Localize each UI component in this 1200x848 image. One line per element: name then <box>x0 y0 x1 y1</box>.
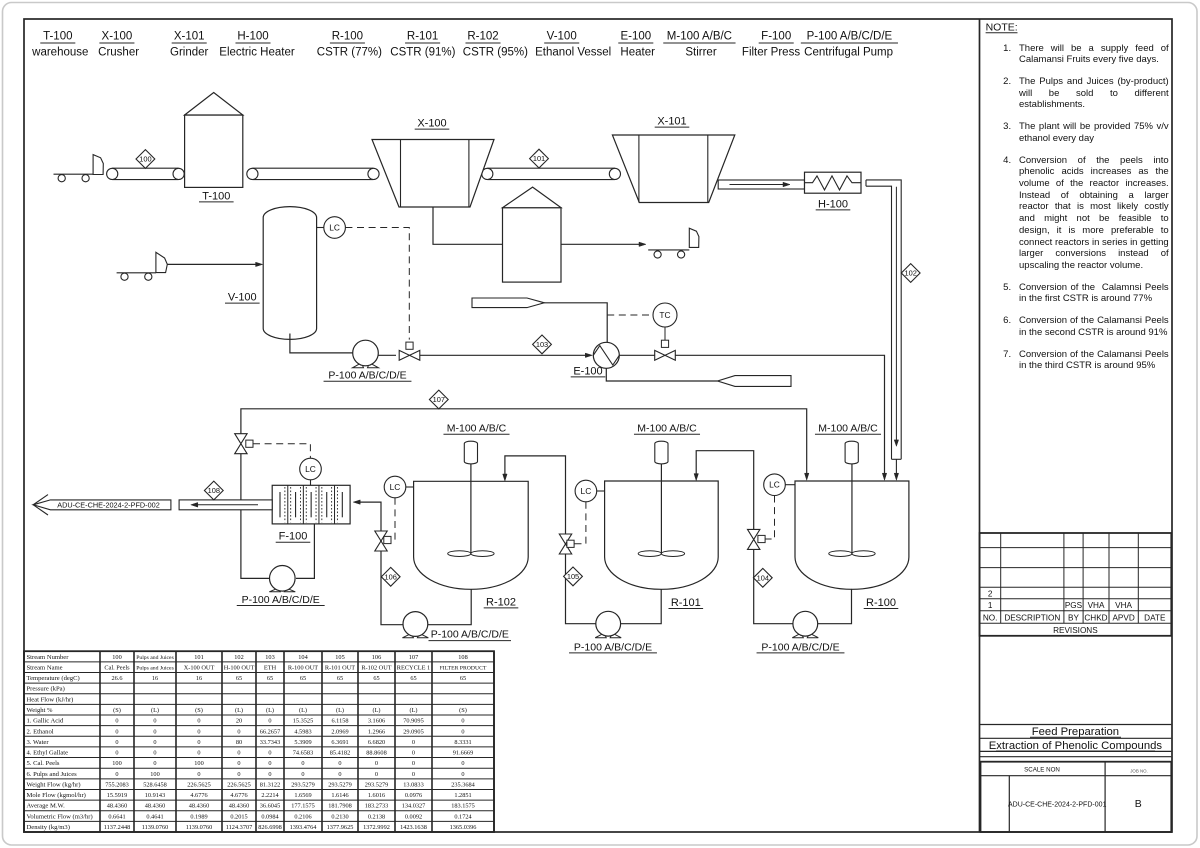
svg-text:103: 103 <box>536 340 548 349</box>
svg-text:Pulps and Juices: Pulps and Juices <box>136 665 174 671</box>
level controller LC V-100 <box>317 227 324 229</box>
svg-text:0.0984: 0.0984 <box>261 813 279 820</box>
svg-text:E-100: E-100 <box>573 365 602 377</box>
svg-text:0: 0 <box>237 760 240 767</box>
scale and number block <box>981 762 1172 832</box>
svg-text:ETH: ETH <box>264 664 277 671</box>
svg-text:107: 107 <box>433 395 445 404</box>
control valve TC (stream to R-100) <box>655 350 676 360</box>
svg-text:48.4360: 48.4360 <box>189 803 209 810</box>
pipe truck to V-100 <box>167 263 257 265</box>
recycle control valve <box>235 434 247 454</box>
stream diamond 105 <box>564 567 583 586</box>
conveyor 2 <box>252 167 373 169</box>
svg-text:VHA: VHA <box>1088 601 1105 610</box>
svg-text:16: 16 <box>152 675 158 682</box>
stream diamond 103 <box>533 335 552 354</box>
heater E-100 <box>593 342 619 368</box>
pipe steam to E-100 <box>544 303 607 342</box>
svg-text:5. Cal. Peels: 5. Cal. Peels <box>27 760 60 767</box>
svg-text:0: 0 <box>153 739 156 746</box>
pipe R-102 pump to F-100 (stream 106) <box>356 502 403 625</box>
svg-text:10.9143: 10.9143 <box>145 792 165 799</box>
svg-text:1365.0396: 1365.0396 <box>450 824 477 831</box>
svg-text:0.2138: 0.2138 <box>368 813 385 820</box>
pipe R-102 to pump <box>428 589 471 624</box>
svg-text:0: 0 <box>461 760 464 767</box>
pump P-100 A/B/C/D/E (ethanol) <box>353 363 364 368</box>
svg-text:0.2130: 0.2130 <box>331 813 348 820</box>
svg-text:1.6569: 1.6569 <box>294 792 311 799</box>
svg-text:0: 0 <box>375 760 378 767</box>
svg-text:1: 1 <box>988 601 993 610</box>
svg-text:H-100 OUT: H-100 OUT <box>224 664 255 671</box>
svg-text:65: 65 <box>410 675 416 682</box>
svg-text:Weight %: Weight % <box>27 707 54 714</box>
svg-text:0: 0 <box>412 750 415 757</box>
svg-text:0.1989: 0.1989 <box>190 813 207 820</box>
stream diamond 102 <box>901 264 920 283</box>
svg-text:APVD: APVD <box>1112 614 1134 623</box>
svg-text:Grinder: Grinder <box>170 47 209 59</box>
signal LC to valve (dashed) <box>345 228 409 340</box>
svg-text:1. Gallic Acid: 1. Gallic Acid <box>27 718 65 725</box>
svg-text:Average M.W.: Average M.W. <box>27 803 66 810</box>
svg-text:1372.9992: 1372.9992 <box>363 824 390 831</box>
svg-text:0: 0 <box>115 728 118 735</box>
svg-text:6.3691: 6.3691 <box>331 739 348 746</box>
svg-text:2: 2 <box>988 589 993 598</box>
pipe pump to recycle valve <box>241 454 269 579</box>
note list <box>998 43 1169 373</box>
stream table <box>24 650 494 652</box>
svg-text:8.3331: 8.3331 <box>454 739 471 746</box>
pump P-100 A/B/C/D/E (filter) <box>269 588 280 592</box>
svg-text:DATE: DATE <box>1144 614 1166 623</box>
reactor R-101 <box>605 481 719 589</box>
svg-text:0: 0 <box>338 760 341 767</box>
svg-text:T-100: T-100 <box>43 31 72 43</box>
svg-text:0.0976: 0.0976 <box>405 792 422 799</box>
pipe R-101 pump to R-102 (stream 105) <box>505 456 596 624</box>
svg-text:F-100: F-100 <box>761 31 791 43</box>
svg-text:Electric Heater: Electric Heater <box>219 47 295 59</box>
svg-text:DESCRIPTION: DESCRIPTION <box>1004 614 1060 623</box>
svg-text:0: 0 <box>268 771 271 778</box>
svg-text:Heat Flow (kJ/hr): Heat Flow (kJ/hr) <box>27 696 74 703</box>
svg-text:Stream Number: Stream Number <box>27 654 70 661</box>
svg-text:3. Water: 3. Water <box>27 739 50 746</box>
svg-text:Ethanol Vessel: Ethanol Vessel <box>535 47 611 59</box>
svg-text:P-100 A/B/C/D/E: P-100 A/B/C/D/E <box>242 594 320 606</box>
pipe pump to E-100 (stream 103) <box>378 354 396 356</box>
svg-text:15.3525: 15.3525 <box>293 718 313 725</box>
svg-text:65: 65 <box>373 675 379 682</box>
svg-text:Pressure (kPa): Pressure (kPa) <box>27 686 65 693</box>
svg-text:SCALE NON: SCALE NON <box>1024 767 1060 774</box>
svg-text:P-100 A/B/C/D/E: P-100 A/B/C/D/E <box>431 628 509 640</box>
svg-text:H-100: H-100 <box>237 31 268 43</box>
svg-text:3.1606: 3.1606 <box>368 718 385 725</box>
svg-text:103: 103 <box>265 654 274 661</box>
conveyor 1 <box>112 167 178 169</box>
condensate outlet pennant <box>718 376 792 387</box>
control valve riser R-102 <box>375 531 387 551</box>
svg-text:6.6820: 6.6820 <box>368 739 385 746</box>
svg-text:1393.4764: 1393.4764 <box>290 824 318 831</box>
svg-text:0: 0 <box>237 750 240 757</box>
pipe R-101 to pump <box>621 589 662 623</box>
svg-text:101: 101 <box>533 154 545 163</box>
svg-text:226.5625: 226.5625 <box>187 781 211 788</box>
svg-text:16: 16 <box>196 675 202 682</box>
svg-text:X-100: X-100 <box>102 31 133 43</box>
svg-text:X-100 OUT: X-100 OUT <box>184 664 215 671</box>
svg-text:Stream Name: Stream Name <box>27 664 63 671</box>
svg-text:65: 65 <box>267 675 273 682</box>
svg-text:JOB NO.: JOB NO. <box>1130 769 1148 774</box>
svg-text:X-101: X-101 <box>657 116 686 128</box>
svg-text:1139.0760: 1139.0760 <box>142 824 169 831</box>
svg-text:4.6776: 4.6776 <box>230 792 247 799</box>
svg-text:0: 0 <box>268 718 271 725</box>
svg-text:Weight Flow (kg/hr): Weight Flow (kg/hr) <box>27 781 81 788</box>
svg-text:81.3122: 81.3122 <box>260 781 280 788</box>
svg-text:P-100 A/B/C/D/E: P-100 A/B/C/D/E <box>328 370 406 382</box>
svg-text:F-100: F-100 <box>279 531 308 543</box>
svg-text:CSTR (95%): CSTR (95%) <box>463 47 528 59</box>
reactor R-100 <box>795 481 909 589</box>
svg-text:88.8608: 88.8608 <box>366 750 386 757</box>
svg-text:CSTR (77%): CSTR (77%) <box>317 47 382 59</box>
filter product duct (stream 108) <box>179 500 272 510</box>
svg-text:H-100: H-100 <box>818 198 848 210</box>
svg-text:70.9095: 70.9095 <box>403 718 423 725</box>
svg-text:M-100 A/B/C: M-100 A/B/C <box>667 31 732 43</box>
svg-text:0: 0 <box>412 771 415 778</box>
svg-text:293.5279: 293.5279 <box>328 781 352 788</box>
svg-text:CSTR (91%): CSTR (91%) <box>390 47 455 59</box>
svg-text:0: 0 <box>412 760 415 767</box>
svg-text:FILTER PRODUCT: FILTER PRODUCT <box>440 665 487 671</box>
svg-text:108: 108 <box>208 486 220 495</box>
svg-text:4.5983: 4.5983 <box>294 728 311 735</box>
stirrer M-100 A/B/C (R-102) <box>464 441 477 464</box>
svg-text:CHKD: CHKD <box>1084 614 1107 623</box>
svg-text:Centrifugal Pump: Centrifugal Pump <box>804 47 893 59</box>
svg-text:104: 104 <box>298 654 308 661</box>
svg-text:226.5625: 226.5625 <box>227 781 251 788</box>
svg-text:13.0833: 13.0833 <box>403 781 423 788</box>
svg-text:183.1575: 183.1575 <box>451 803 475 810</box>
svg-text:528.6458: 528.6458 <box>143 781 167 788</box>
pipe V-100 to pump P-100 <box>290 334 353 353</box>
pump P-100 A/B/C/D/E (R-101) <box>595 633 606 638</box>
svg-text:100: 100 <box>194 760 203 767</box>
svg-text:33.7343: 33.7343 <box>260 739 280 746</box>
svg-text:4.6776: 4.6776 <box>190 792 207 799</box>
temperature controller TC <box>607 314 653 316</box>
svg-text:0: 0 <box>153 728 156 735</box>
svg-text:4. Ethyl Gallate: 4. Ethyl Gallate <box>27 750 69 757</box>
svg-text:ADU-CE-CHE-2024-2-PFD-002: ADU-CE-CHE-2024-2-PFD-002 <box>57 501 160 510</box>
pipe X-100 to pulp silo <box>433 207 503 244</box>
svg-text:LC: LC <box>390 482 401 492</box>
svg-text:0.2106: 0.2106 <box>294 813 311 820</box>
svg-text:48.4360: 48.4360 <box>229 803 249 810</box>
svg-text:RECYCLE 1: RECYCLE 1 <box>397 664 430 671</box>
svg-text:65: 65 <box>460 675 466 682</box>
truck 2 (ethanol delivery) <box>121 273 128 280</box>
control valve riser R-101 <box>559 534 571 554</box>
svg-text:0.6641: 0.6641 <box>108 813 125 820</box>
svg-text:Volumetric Flow (m3/hr): Volumetric Flow (m3/hr) <box>27 813 93 820</box>
svg-text:108: 108 <box>458 654 467 661</box>
svg-text:P-100 A/B/C/D/E: P-100 A/B/C/D/E <box>807 31 893 43</box>
svg-text:M-100 A/B/C: M-100 A/B/C <box>818 423 878 435</box>
pipe R-100 pump to R-101 (stream 104) <box>696 451 793 624</box>
off-page connector ADU-CE-CHE-2024-2-PFD-002 <box>33 500 171 510</box>
svg-text:0: 0 <box>197 718 200 725</box>
svg-text:R-102 OUT: R-102 OUT <box>361 664 391 671</box>
svg-text:LC: LC <box>581 486 592 496</box>
filter press F-100 <box>272 485 350 524</box>
conveyor 3 <box>487 167 615 169</box>
stream diamond 108 <box>204 481 223 500</box>
svg-text:100: 100 <box>139 155 151 164</box>
svg-text:Filter Press: Filter Press <box>742 47 800 59</box>
svg-text:(S): (S) <box>459 707 467 714</box>
svg-text:REVISIONS: REVISIONS <box>1053 626 1098 635</box>
svg-text:X-101: X-101 <box>174 31 205 43</box>
svg-text:0: 0 <box>197 771 200 778</box>
level controller LC F-100 <box>300 458 322 480</box>
truck 3 (pulps and juices) <box>654 251 661 258</box>
svg-text:NOTE:: NOTE: <box>986 22 1018 34</box>
pipe F-100 bottom to pump <box>296 524 314 579</box>
svg-text:Density (kg/m3): Density (kg/m3) <box>27 824 70 831</box>
svg-text:Feed Preparation: Feed Preparation <box>1032 726 1119 738</box>
svg-text:1.6016: 1.6016 <box>368 792 385 799</box>
svg-text:(L): (L) <box>151 707 159 714</box>
svg-text:826.6998: 826.6998 <box>258 824 282 831</box>
stirrer M-100 A/B/C (R-101) <box>655 441 668 464</box>
svg-text:Heater: Heater <box>620 47 655 59</box>
svg-text:M-100 A/B/C: M-100 A/B/C <box>447 423 507 435</box>
svg-text:0: 0 <box>461 728 464 735</box>
svg-text:0: 0 <box>461 771 464 778</box>
svg-text:0: 0 <box>375 771 378 778</box>
svg-text:1.2966: 1.2966 <box>368 728 385 735</box>
svg-text:293.5279: 293.5279 <box>365 781 389 788</box>
grinder X-101 <box>612 135 734 203</box>
svg-text:181.7908: 181.7908 <box>328 803 352 810</box>
svg-text:Extraction of Phenolic Compoun: Extraction of Phenolic Compounds <box>989 740 1163 752</box>
level controller LC R-101 <box>575 480 597 502</box>
svg-text:134.0327: 134.0327 <box>402 803 426 810</box>
svg-text:100: 100 <box>112 760 121 767</box>
svg-text:1137.2448: 1137.2448 <box>104 824 131 831</box>
warehouse silo T-100 <box>185 115 243 187</box>
electric heater H-100 <box>805 172 862 193</box>
svg-text:R-100: R-100 <box>866 597 896 609</box>
stream diamond 107 <box>429 390 448 409</box>
svg-text:VHA: VHA <box>1115 601 1132 610</box>
svg-text:100: 100 <box>150 771 159 778</box>
svg-text:R-102: R-102 <box>486 596 516 608</box>
pipe duct end into R-100 <box>895 459 897 474</box>
stream diamond 106 <box>381 567 400 586</box>
svg-text:177.1575: 177.1575 <box>291 803 315 810</box>
svg-text:20: 20 <box>236 718 242 725</box>
svg-text:R-101: R-101 <box>407 31 438 43</box>
svg-text:0: 0 <box>153 760 156 767</box>
svg-text:(L): (L) <box>235 707 243 714</box>
svg-text:48.4360: 48.4360 <box>107 803 127 810</box>
svg-text:1423.1638: 1423.1638 <box>400 824 427 831</box>
duct H-100 to R-100 (stream 102) <box>866 180 901 459</box>
pump P-100 A/B/C/D/E (R-102) <box>402 633 413 637</box>
pump P-100 A/B/C/D/E (R-100) <box>792 633 803 638</box>
svg-text:PGS: PGS <box>1065 601 1083 610</box>
svg-text:102: 102 <box>234 654 243 661</box>
svg-text:0: 0 <box>153 718 156 725</box>
control valve (ethanol feed) <box>406 342 413 349</box>
svg-text:0: 0 <box>268 760 271 767</box>
svg-text:(L): (L) <box>409 707 417 714</box>
svg-text:6.1158: 6.1158 <box>331 718 348 725</box>
svg-text:V-100: V-100 <box>228 292 257 304</box>
svg-text:0: 0 <box>237 728 240 735</box>
truck 1 (calamansi fruit delivery) <box>58 175 65 182</box>
svg-text:293.5279: 293.5279 <box>291 781 315 788</box>
svg-text:R-100 OUT: R-100 OUT <box>288 664 318 671</box>
svg-text:0: 0 <box>301 760 304 767</box>
svg-text:48.4360: 48.4360 <box>145 803 165 810</box>
svg-text:TC: TC <box>659 310 670 320</box>
svg-text:6. Pulps and Juices: 6. Pulps and Juices <box>27 771 78 778</box>
svg-text:Temperature (degC): Temperature (degC) <box>27 675 80 682</box>
svg-text:(S): (S) <box>195 707 203 714</box>
svg-text:(L): (L) <box>336 707 344 714</box>
svg-text:BY: BY <box>1068 614 1079 623</box>
svg-text:66.2657: 66.2657 <box>260 728 280 735</box>
svg-text:R-100: R-100 <box>332 31 363 43</box>
svg-text:0: 0 <box>115 771 118 778</box>
signal LC to recycle valve (dashed) <box>253 444 310 459</box>
svg-text:R-102: R-102 <box>467 31 498 43</box>
svg-text:LC: LC <box>329 223 340 233</box>
svg-text:0: 0 <box>237 771 240 778</box>
svg-text:74.6583: 74.6583 <box>293 750 313 757</box>
svg-text:0.2015: 0.2015 <box>230 813 247 820</box>
svg-text:0: 0 <box>301 771 304 778</box>
svg-text:65: 65 <box>300 675 306 682</box>
crusher X-100 <box>372 140 494 208</box>
svg-text:M-100 A/B/C: M-100 A/B/C <box>637 423 697 435</box>
svg-text:B: B <box>1135 798 1142 810</box>
ethanol vessel V-100 <box>263 207 316 340</box>
svg-text:26.6: 26.6 <box>111 675 122 682</box>
svg-text:P-100 A/B/C/D/E: P-100 A/B/C/D/E <box>574 641 652 653</box>
svg-text:15.5919: 15.5919 <box>107 792 127 799</box>
svg-text:0.0092: 0.0092 <box>405 813 422 820</box>
svg-text:0: 0 <box>268 750 271 757</box>
signal TC to valve <box>664 327 666 340</box>
svg-text:80: 80 <box>236 739 242 746</box>
svg-text:Mole Flow (kgmol/hr): Mole Flow (kgmol/hr) <box>27 792 86 799</box>
svg-text:1.6146: 1.6146 <box>331 792 348 799</box>
svg-text:0.4641: 0.4641 <box>146 813 163 820</box>
svg-text:101: 101 <box>194 654 203 661</box>
stream diamond 104 <box>753 568 772 587</box>
svg-text:(S): (S) <box>113 707 121 714</box>
svg-text:Cal. Peels: Cal. Peels <box>104 664 130 671</box>
svg-text:(L): (L) <box>266 707 274 714</box>
svg-text:0: 0 <box>115 739 118 746</box>
svg-text:V-100: V-100 <box>547 31 577 43</box>
svg-text:183.2733: 183.2733 <box>365 803 389 810</box>
svg-text:Pulps and Juices: Pulps and Juices <box>136 655 174 661</box>
stream diamond 101 <box>530 149 549 168</box>
control valve riser R-100 <box>748 529 760 549</box>
svg-text:0: 0 <box>461 718 464 725</box>
svg-text:0: 0 <box>197 728 200 735</box>
svg-text:0: 0 <box>153 750 156 757</box>
pipe recycle (stream 107) <box>241 409 807 475</box>
level controller LC R-102 <box>384 476 406 498</box>
svg-text:1124.3707: 1124.3707 <box>226 824 253 831</box>
svg-text:2.0969: 2.0969 <box>331 728 348 735</box>
level controller LC R-100 <box>764 474 786 496</box>
svg-text:755.2083: 755.2083 <box>105 781 129 788</box>
svg-text:100: 100 <box>112 654 121 661</box>
svg-text:(L): (L) <box>299 707 307 714</box>
svg-text:Crusher: Crusher <box>98 47 139 59</box>
svg-text:E-100: E-100 <box>620 31 651 43</box>
svg-text:LC: LC <box>769 480 780 490</box>
svg-text:235.3684: 235.3684 <box>451 781 475 788</box>
svg-text:NO.: NO. <box>983 614 998 623</box>
svg-text:1377.9625: 1377.9625 <box>327 824 354 831</box>
svg-text:0: 0 <box>115 750 118 757</box>
svg-text:2. Ethanol: 2. Ethanol <box>27 728 54 735</box>
revisions table <box>980 533 1172 636</box>
svg-text:R-101: R-101 <box>671 597 701 609</box>
svg-text:P-100 A/B/C/D/E: P-100 A/B/C/D/E <box>761 641 839 653</box>
svg-text:LC: LC <box>305 464 316 474</box>
svg-text:(L): (L) <box>372 707 380 714</box>
duct X-101 to H-100 <box>718 180 804 189</box>
svg-text:Stirrer: Stirrer <box>685 47 716 59</box>
pipe R-100 to pump <box>818 589 852 624</box>
stirrer M-100 A/B/C (R-100) <box>845 441 858 464</box>
svg-text:X-100: X-100 <box>417 118 446 130</box>
pipe E-100 to R-100 <box>619 354 654 356</box>
svg-text:T-100: T-100 <box>202 190 230 202</box>
svg-text:107: 107 <box>409 654 418 661</box>
svg-text:106: 106 <box>372 654 381 661</box>
svg-text:5.3909: 5.3909 <box>294 739 311 746</box>
stream diamond 100 <box>136 150 155 169</box>
pipe E-100 condensate <box>606 368 717 381</box>
svg-text:ADU-CE-CHE-2024-2-PFD-001: ADU-CE-CHE-2024-2-PFD-001 <box>1008 801 1107 808</box>
svg-text:0.1724: 0.1724 <box>454 813 472 820</box>
svg-text:91.6669: 91.6669 <box>453 750 473 757</box>
svg-text:36.6045: 36.6045 <box>260 803 280 810</box>
pulp silo <box>503 208 562 282</box>
svg-text:warehouse: warehouse <box>31 47 88 59</box>
